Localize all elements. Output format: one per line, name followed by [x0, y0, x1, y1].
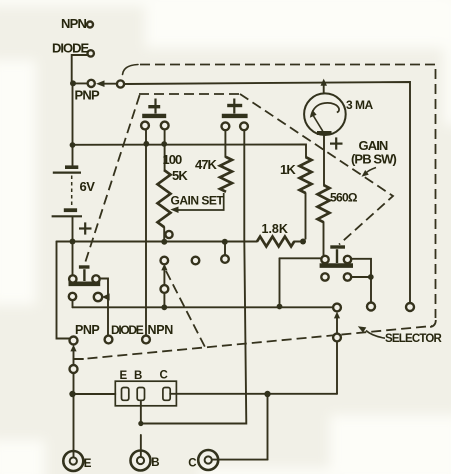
svg-text:DIODE: DIODE [111, 323, 144, 337]
svg-text:5K: 5K [172, 168, 188, 183]
svg-text:PNP: PNP [75, 88, 100, 103]
svg-text:NPN: NPN [148, 323, 174, 337]
svg-text:3 MA: 3 MA [346, 98, 374, 112]
svg-text:C: C [188, 458, 196, 470]
svg-text:DIODE: DIODE [52, 41, 90, 56]
svg-text:6V: 6V [80, 179, 96, 194]
svg-text:NPN: NPN [61, 16, 86, 31]
svg-text:E: E [120, 370, 128, 382]
svg-text:B: B [134, 370, 142, 382]
svg-text:100: 100 [163, 152, 182, 167]
svg-text:PNP: PNP [75, 323, 99, 337]
svg-text:E: E [84, 458, 92, 470]
svg-text:SELECTOR: SELECTOR [385, 333, 443, 345]
svg-text:47K: 47K [195, 157, 217, 172]
svg-text:GAIN SET: GAIN SET [171, 194, 225, 208]
svg-text:(PB SW): (PB SW) [351, 152, 397, 167]
svg-text:B: B [151, 457, 159, 469]
svg-text:1K: 1K [280, 162, 296, 177]
svg-text:1.8K: 1.8K [262, 222, 288, 236]
svg-text:C: C [160, 370, 168, 382]
svg-text:560Ω: 560Ω [330, 191, 358, 205]
